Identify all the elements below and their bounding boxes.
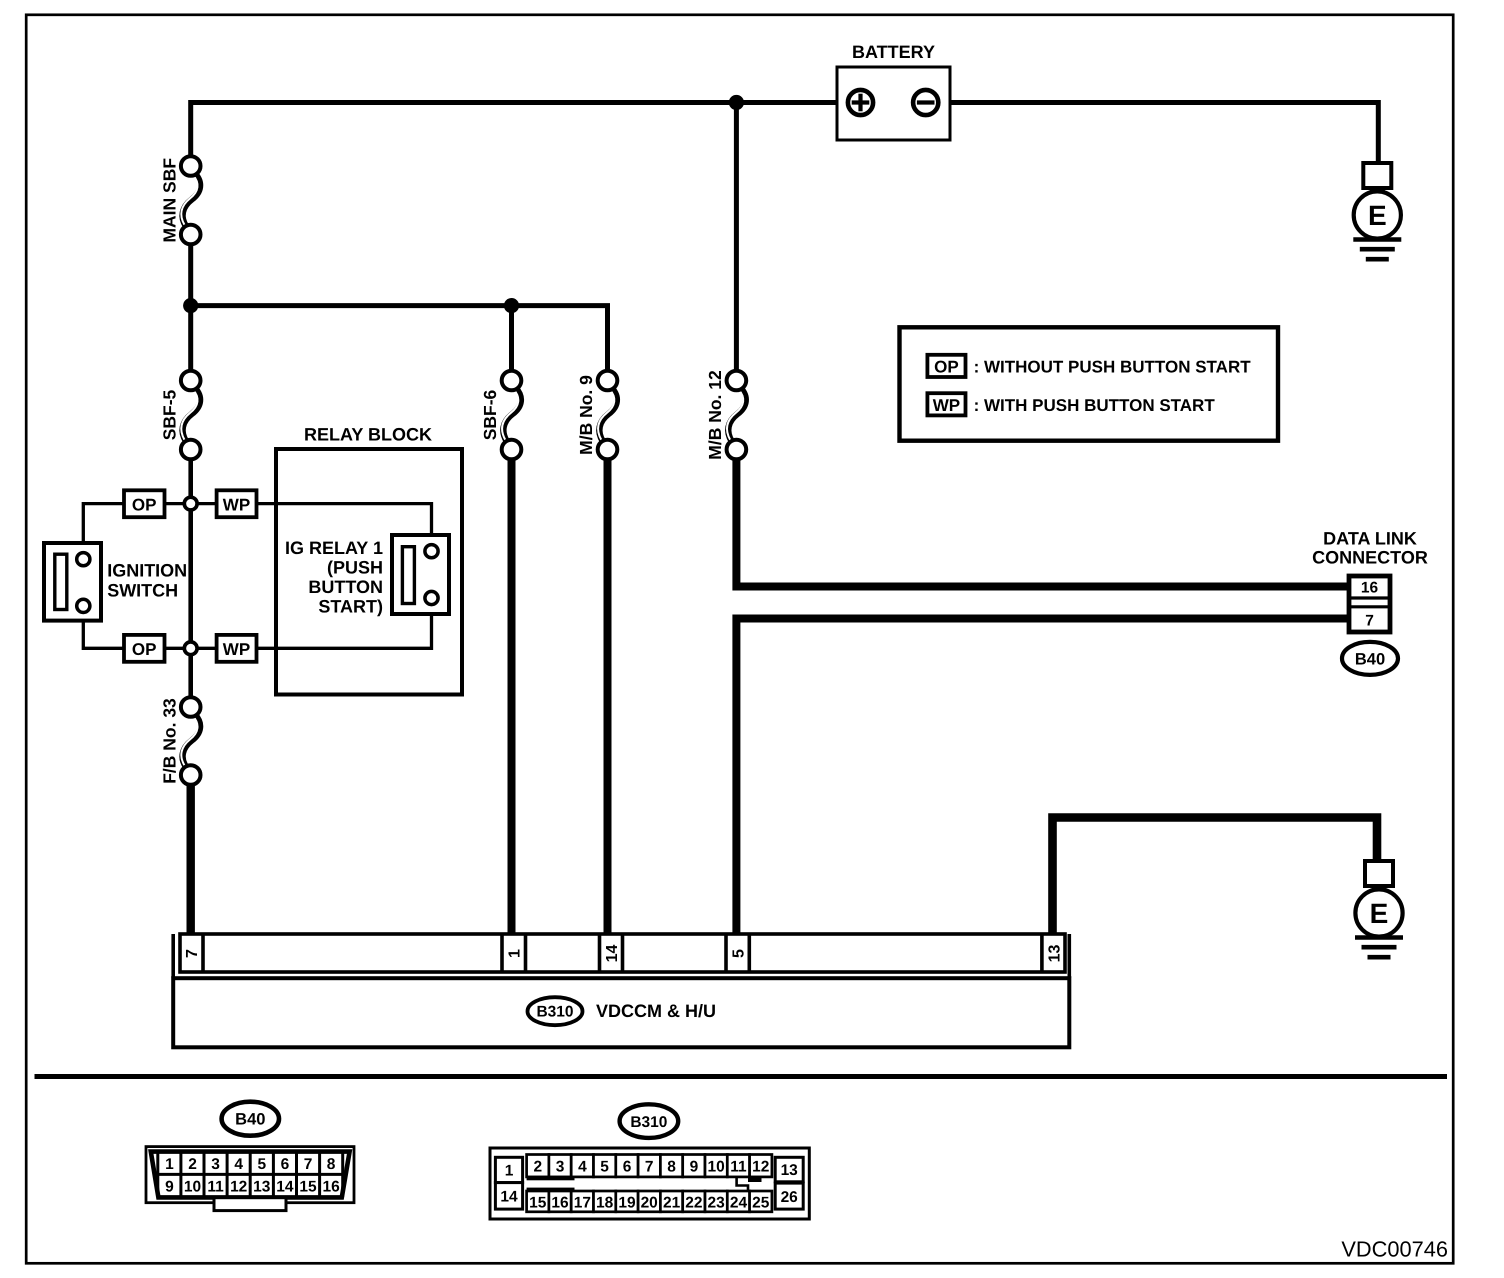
svg-text:16: 16: [551, 1195, 569, 1212]
svg-text:6: 6: [623, 1159, 632, 1176]
svg-text:VDCCM & H/U: VDCCM & H/U: [596, 1001, 716, 1021]
wire: M/B No.12 to DLC pin 16 (thick): [736, 458, 1349, 587]
svg-text:(PUSH: (PUSH: [327, 558, 383, 578]
svg-text:MAIN SBF: MAIN SBF: [159, 158, 179, 243]
svg-text:5: 5: [730, 949, 747, 958]
svg-text:5: 5: [600, 1159, 609, 1176]
wire: F/B No.33 to VDCCM pin 7 (thick): [186, 784, 194, 935]
svg-text:M/B No. 12: M/B No. 12: [705, 370, 725, 460]
WP box lower: [217, 635, 257, 662]
svg-text:1: 1: [165, 1156, 174, 1173]
fuse SBF-5: [181, 371, 201, 460]
svg-text:SWITCH: SWITCH: [107, 580, 178, 600]
svg-text:15: 15: [529, 1195, 547, 1212]
svg-text:21: 21: [663, 1195, 681, 1212]
wire: SBF-5 to upper node: [188, 459, 193, 642]
svg-text:3: 3: [556, 1159, 565, 1176]
WP box upper: [217, 490, 257, 517]
svg-text:: WITH PUSH BUTTON START: : WITH PUSH BUTTON START: [974, 396, 1216, 415]
OP box upper: [124, 490, 165, 517]
svg-text:1: 1: [507, 949, 524, 958]
svg-text:7: 7: [1365, 613, 1374, 630]
svg-text:22: 22: [685, 1195, 702, 1212]
svg-text:BATTERY: BATTERY: [852, 42, 935, 62]
svg-text:13: 13: [1046, 945, 1063, 963]
svg-text:13: 13: [781, 1162, 799, 1179]
fuse MAIN SBF: [181, 156, 201, 244]
wire: VDCCM pin 13 to ground (thick): [1053, 818, 1378, 935]
svg-text:WP: WP: [223, 640, 250, 659]
svg-text:14: 14: [276, 1179, 294, 1196]
svg-text:7: 7: [645, 1159, 654, 1176]
svg-text:OP: OP: [132, 640, 157, 659]
wire: DLC pin 7 to VDCCM pin 5 (thick): [736, 619, 1349, 935]
svg-text:VDC00746: VDC00746: [1341, 1237, 1448, 1262]
wire: M/B No. 12 feed vertical: [734, 103, 739, 373]
wire: SBF-6 to VDCCM pin 1 (thick): [508, 458, 516, 934]
legend box: [900, 327, 1279, 440]
svg-text:26: 26: [781, 1189, 799, 1206]
svg-text:IG RELAY 1: IG RELAY 1: [285, 538, 383, 558]
svg-text:WP: WP: [933, 396, 960, 415]
connector DLC pins 16/7: [1349, 576, 1390, 632]
svg-text:B40: B40: [235, 1111, 265, 1129]
svg-text:24: 24: [730, 1195, 748, 1212]
wire: upper ladder row: [83, 504, 124, 554]
svg-text:4: 4: [234, 1156, 243, 1173]
svg-text:B40: B40: [1355, 650, 1385, 668]
node upper (open): [184, 497, 197, 510]
svg-text:11: 11: [730, 1159, 747, 1176]
separator line: [35, 1074, 1448, 1079]
fuse SBF-6: [502, 371, 522, 460]
svg-text:4: 4: [578, 1159, 587, 1176]
ignition switch SW: [44, 543, 101, 621]
svg-text:12: 12: [230, 1179, 247, 1196]
svg-text:OP: OP: [132, 495, 157, 514]
svg-text:8: 8: [667, 1159, 676, 1176]
svg-text:RELAY BLOCK: RELAY BLOCK: [304, 425, 432, 445]
svg-text:SBF-6: SBF-6: [480, 389, 500, 440]
svg-text:B310: B310: [536, 1004, 573, 1021]
svg-text:6: 6: [281, 1156, 290, 1173]
fuse M/B No. 9: [598, 371, 618, 460]
wire: lower ladder row: [83, 612, 124, 648]
svg-text:IGNITION: IGNITION: [107, 561, 187, 581]
svg-text:9: 9: [165, 1179, 174, 1196]
svg-text:BUTTON: BUTTON: [308, 577, 383, 597]
wire: lower node to F/B No.33: [188, 655, 193, 699]
OP box lower: [124, 635, 165, 662]
svg-text:13: 13: [253, 1179, 271, 1196]
svg-text:START): START): [318, 597, 383, 617]
svg-text:10: 10: [707, 1159, 724, 1176]
svg-text:DATA LINK: DATA LINK: [1323, 529, 1417, 549]
wire: battery negative to ground: [939, 103, 1379, 165]
svg-text:25: 25: [752, 1195, 770, 1212]
fuse F/B No. 33: [181, 697, 201, 785]
svg-text:12: 12: [752, 1159, 769, 1176]
svg-text:20: 20: [641, 1195, 658, 1212]
svg-text:F/B No. 33: F/B No. 33: [159, 698, 179, 784]
junction: bus left: [183, 298, 198, 313]
svg-text:14: 14: [500, 1189, 518, 1206]
svg-text:WP: WP: [223, 495, 250, 514]
svg-text:23: 23: [707, 1195, 725, 1212]
svg-text:15: 15: [299, 1179, 317, 1196]
relay U: IG RELAY 1 (PUSH BUTTON START): [392, 535, 449, 614]
connector B310 pinout: [490, 1104, 809, 1219]
svg-text:5: 5: [257, 1156, 266, 1173]
svg-text:10: 10: [184, 1179, 201, 1196]
svg-text:14: 14: [604, 945, 621, 963]
svg-text:3: 3: [211, 1156, 220, 1173]
connector B40 pinout: [146, 1102, 354, 1211]
ground top-right (E): [1353, 163, 1401, 259]
ground bottom-right (E): [1355, 861, 1403, 957]
connector ref B40 (oval): [1342, 642, 1398, 675]
svg-text:M/B No. 9: M/B No. 9: [576, 375, 596, 455]
wire: M/B No.9 to VDCCM pin 14 (thick): [604, 458, 612, 934]
svg-text:9: 9: [690, 1159, 699, 1176]
svg-text:8: 8: [327, 1156, 336, 1173]
fuse M/B No. 12: [727, 371, 747, 460]
wire: battery positive feed (top horizontal): [191, 103, 848, 158]
svg-text:2: 2: [533, 1159, 542, 1176]
battery: [837, 67, 950, 140]
svg-text:E: E: [1370, 898, 1389, 929]
svg-text:CONNECTOR: CONNECTOR: [1312, 548, 1428, 568]
wire: MAIN SBF to bus: [188, 244, 193, 306]
svg-text:19: 19: [618, 1195, 636, 1212]
junction: battery feed / M/B No. 12: [729, 95, 744, 110]
svg-text:7: 7: [184, 949, 201, 958]
svg-text:SBF-5: SBF-5: [159, 389, 179, 440]
connector ref B310 (oval): [528, 997, 583, 1025]
node lower (open): [184, 642, 197, 655]
svg-text:1: 1: [505, 1163, 514, 1180]
svg-text:18: 18: [596, 1195, 614, 1212]
svg-text:11: 11: [207, 1179, 224, 1196]
svg-text:B310: B310: [630, 1114, 667, 1131]
wire: bus to SBF-5 / SBF-6 / M/B No.9: [191, 306, 608, 372]
svg-text:: WITHOUT PUSH BUTTON START: : WITHOUT PUSH BUTTON START: [974, 358, 1252, 377]
svg-text:16: 16: [322, 1179, 340, 1196]
svg-text:OP: OP: [934, 358, 959, 377]
svg-text:E: E: [1368, 200, 1387, 231]
svg-text:7: 7: [304, 1156, 313, 1173]
svg-text:16: 16: [1361, 580, 1379, 597]
svg-text:17: 17: [574, 1195, 591, 1212]
svg-text:2: 2: [188, 1156, 197, 1173]
connector B310 VDCCM & H/U: [173, 934, 1069, 1047]
junction: bus / SBF-6: [504, 298, 519, 313]
